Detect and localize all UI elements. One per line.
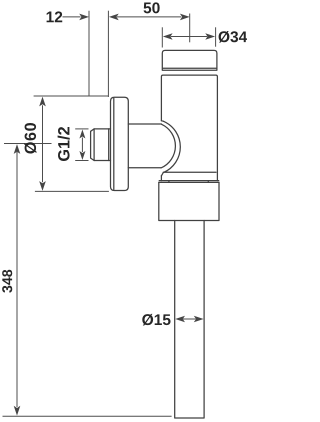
- inlet body bottom edge: [128, 167, 161, 169]
- dim G1/2 bottom tick: [75, 160, 88, 162]
- coupling nut body: [159, 182, 219, 220]
- arrow 50 left-pointing: [109, 14, 119, 21]
- column centerline: [189, 14, 191, 43]
- G1/2 threaded stub: [91, 129, 111, 161]
- dim 12 leader: [63, 16, 81, 18]
- dim diam60 line: [42, 105, 44, 182]
- cone outer curve: [161, 121, 180, 176]
- dim 12 left extension line: [88, 11, 90, 96]
- label G12 rotated: [58, 127, 70, 161]
- arrow diam15 left-pointing: [175, 316, 185, 323]
- dim diam60 bottom extension: [35, 190, 109, 192]
- cap inner line: [163, 67, 217, 69]
- cone top chamfer: [161, 120, 163, 123]
- dim diam34 right extension: [215, 27, 217, 46]
- dim G1/2 line: [81, 138, 83, 153]
- flange inner line: [113, 98, 115, 189]
- bottom extension line: [3, 415, 172, 417]
- label diam15: [142, 314, 170, 326]
- valve housing column lower left edge: [160, 176, 162, 181]
- arrow diam60 up-pointing: [39, 97, 46, 107]
- valve housing column: [161, 75, 217, 181]
- arrowheads: [14, 14, 215, 416]
- cone inner curve: [161, 124, 175, 168]
- dimension lines: [3, 11, 216, 417]
- housing step line: [163, 171, 216, 173]
- wall flange: [111, 97, 129, 190]
- inlet body top edge: [128, 123, 161, 125]
- dim 348 top extension (centerline): [4, 143, 52, 145]
- arrow diam34 right-pointing: [205, 33, 215, 40]
- dim G1/2 top tick: [75, 128, 88, 130]
- push button cap: [162, 50, 217, 70]
- stub thread line right: [108, 129, 110, 161]
- label 12: [47, 11, 63, 22]
- dimension texts: [2, 2, 247, 325]
- dim diam34 left extension: [161, 27, 163, 47]
- coupling nut tick marks: [169, 181, 208, 183]
- stub thread line left: [93, 129, 95, 161]
- arrow 50 right-pointing: [180, 14, 190, 21]
- dim diam34 line: [171, 36, 207, 38]
- arrow diam34 left-pointing: [163, 33, 173, 40]
- dim 50 line: [117, 16, 181, 18]
- arrow 348 up-pointing: [14, 144, 21, 154]
- outlet pipe: [175, 221, 204, 419]
- arrow 12 right-pointing: [79, 14, 89, 21]
- dim 12 right extension line: [107, 11, 109, 97]
- coupling nut top double line: [159, 181, 219, 183]
- arrow 348 down-pointing: [14, 406, 21, 416]
- arrow diam60 down-pointing: [39, 181, 46, 191]
- outlines of valve: [91, 50, 219, 418]
- dim diam15 line: [183, 318, 196, 320]
- label 348 rotated: [2, 270, 12, 293]
- dim diam60 top extension: [34, 95, 109, 97]
- arrow G1/2 down-pointing: [79, 151, 85, 160]
- label 50: [144, 2, 160, 13]
- label diam34: [219, 31, 248, 43]
- arrow diam15 right-pointing: [194, 316, 204, 323]
- dim 348 line: [16, 152, 18, 407]
- label diam60 rotated: [24, 123, 36, 154]
- arrow G1/2 up-pointing: [79, 130, 85, 139]
